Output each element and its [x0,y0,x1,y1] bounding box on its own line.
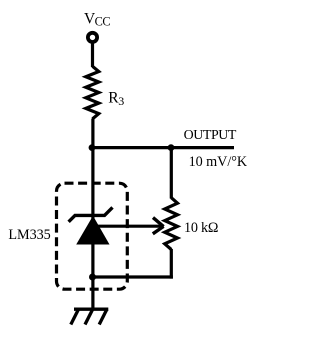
ground slash 1 [71,309,79,324]
svg-text:OUTPUT: OUTPUT [184,128,237,143]
wire R3 bottom down through LM335 to ground bar [91,119,94,310]
LM335 dashed box [57,183,128,289]
svg-text:3: 3 [118,94,124,108]
wire VCC terminal to R3 top [91,42,94,67]
resistor R3 [86,66,99,119]
svg-text:10 mV/°K: 10 mV/°K [189,154,248,170]
node junction dot bottom [89,274,96,281]
svg-text:10 kΩ: 10 kΩ [184,220,218,236]
ground slash 2 [85,309,93,324]
wire output horizontal [93,146,235,149]
wiper arrow to pot [96,225,163,228]
ground bar [74,308,108,311]
svg-text:LM335: LM335 [8,227,50,243]
diode U1 triangle (anode) [76,216,109,245]
node junction dot left [89,144,96,151]
node VCC label [84,10,110,28]
label R3 [108,89,124,108]
diode U1 zener bar [69,207,113,221]
wire pot bottom to lower junction [93,275,173,278]
svg-text:CC: CC [95,15,111,29]
terminal VCC (open circle) [88,33,97,42]
ground slash 3 [99,309,107,324]
wire junction to pot top [170,148,173,199]
node junction dot right [168,144,175,151]
potentiometer 10k (zigzag) [165,198,178,250]
wire pot bottom down [170,249,173,279]
